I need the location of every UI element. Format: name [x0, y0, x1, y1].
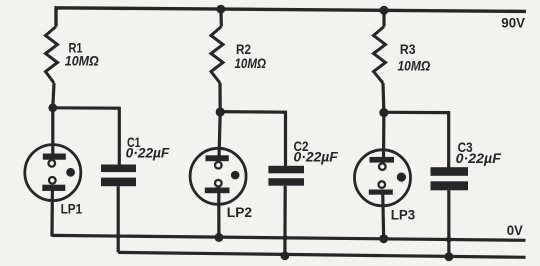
capacitor C2	[268, 166, 304, 186]
svg-text:LP1: LP1	[61, 202, 83, 217]
node A junction dot (R1/LP1/C1)	[48, 103, 57, 112]
node B junction dot (R2/LP2/C2)	[216, 107, 225, 116]
svg-text:R2: R2	[236, 41, 251, 57]
wire 0V rail	[52, 235, 526, 240]
node R3 top junction dot	[380, 6, 389, 15]
capacitor C3	[431, 167, 469, 190]
lamp LP1	[25, 108, 81, 237]
capacitor C1	[101, 165, 136, 187]
node C2 lower-rail junction dot	[281, 251, 290, 260]
node LP2 0V-rail junction dot	[214, 233, 223, 242]
wire node A to C1 top	[53, 108, 120, 166]
lamp LP3	[355, 113, 411, 239]
wire R1 bottom to node A	[53, 83, 54, 108]
wire C1 bottom to lower rail	[117, 186, 120, 252]
resistor R2	[211, 9, 223, 112]
wire 90V top rail	[56, 8, 526, 27]
wire C2 bottom to lower rail	[283, 186, 287, 256]
resistor R1	[46, 27, 58, 84]
node R2 top junction dot	[217, 5, 226, 14]
svg-text:0·22µF: 0·22µF	[126, 146, 170, 161]
wire crossing bulge C3 lead over 0V rail	[446, 237, 452, 243]
svg-text:LP2: LP2	[227, 205, 252, 220]
node C junction dot (R3/LP3/C3)	[379, 108, 388, 117]
node C3 lower-rail junction dot	[444, 252, 453, 261]
wire node C to C3 top	[384, 112, 449, 168]
svg-text:10MΩ: 10MΩ	[398, 57, 431, 73]
node LP3 0V-rail junction dot	[379, 234, 388, 243]
svg-text:10MΩ: 10MΩ	[65, 54, 99, 69]
wire C3 bottom to lower rail	[447, 190, 450, 256]
svg-text:0V: 0V	[507, 222, 524, 238]
resistor R3	[374, 10, 386, 113]
wire lower rail (capacitor common)	[118, 252, 525, 257]
wire crossing bulge C2 lead over 0V rail	[282, 235, 287, 240]
lamp LP2	[190, 112, 246, 237]
wire crossing bulge C1 lead over 0V rail	[116, 233, 121, 238]
svg-text:0·22µF: 0·22µF	[294, 150, 339, 165]
svg-text:0·22µF: 0·22µF	[456, 151, 502, 166]
svg-text:R3: R3	[400, 41, 416, 57]
svg-text:LP3: LP3	[391, 208, 416, 223]
svg-text:90V: 90V	[501, 15, 525, 31]
wire node B to C2 top	[220, 112, 285, 167]
svg-text:10MΩ: 10MΩ	[235, 56, 267, 71]
